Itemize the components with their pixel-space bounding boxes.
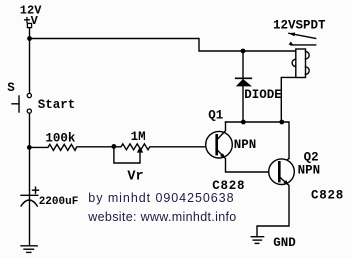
svg-text:DIODE: DIODE (244, 88, 282, 102)
svg-text:S: S (7, 81, 15, 95)
svg-text:website: www.minhdt.info: website: www.minhdt.info (87, 210, 236, 224)
svg-text:by minhdt 0904250638: by minhdt 0904250638 (88, 191, 234, 205)
svg-text:NPN: NPN (234, 138, 257, 152)
svg-text:Vr: Vr (127, 170, 143, 185)
svg-text:Start: Start (38, 98, 76, 112)
svg-text:12VSPDT: 12VSPDT (273, 19, 326, 33)
svg-text:100k: 100k (45, 131, 76, 145)
svg-text:NPN: NPN (298, 163, 321, 177)
svg-text:C828: C828 (311, 188, 344, 202)
svg-text:+V: +V (23, 14, 38, 28)
svg-text:GND: GND (273, 236, 296, 250)
svg-text:2200uF: 2200uF (39, 196, 79, 208)
svg-text:1M: 1M (131, 130, 146, 144)
svg-text:Q1: Q1 (208, 108, 223, 122)
